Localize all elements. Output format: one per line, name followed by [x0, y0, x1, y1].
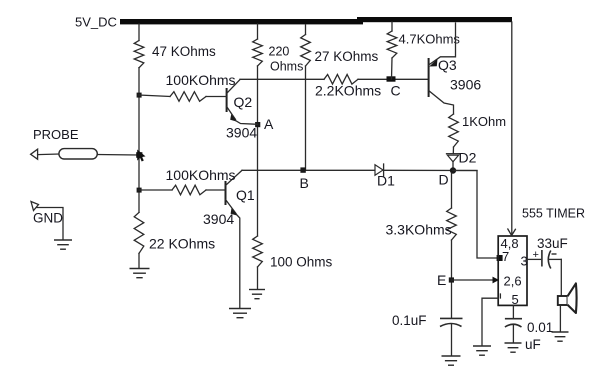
resistor 47 KOhms: [134, 41, 144, 68]
label 555 TIMER: [522, 207, 585, 221]
svg-text:4.7KOhms: 4.7KOhms: [399, 32, 461, 47]
wire gnd arrow to ground: [37, 208, 63, 240]
svg-text:1KOhm: 1KOhm: [462, 114, 506, 129]
pin label 3: [521, 254, 528, 269]
svg-text:Q3: Q3: [438, 57, 457, 73]
ground below Q1 emitter: [229, 309, 251, 318]
wire 33uF to speaker: [560, 259, 562, 296]
ground below 100 Ohms: [249, 290, 265, 299]
label 3906 for Q3: [450, 77, 481, 93]
wire 555 pin 1 to ground: [482, 298, 498, 345]
resistor 1KOhm: [449, 114, 459, 147]
speaker LS1: [558, 283, 577, 313]
label C: [391, 83, 401, 99]
svg-text:Q2: Q2: [234, 94, 253, 110]
svg-text:100KOhms: 100KOhms: [166, 72, 236, 88]
ground 555 pin 1: [473, 346, 491, 355]
wire node E to 555 pin 2,6: [452, 279, 497, 281]
ground below 0.01uF: [505, 343, 522, 352]
capacitor 0.1uF: [440, 318, 463, 355]
arrowhead at 555 pin 2,6: [493, 277, 500, 284]
wire node D down to 3.3KOhms: [451, 173, 453, 208]
label 0.1uF: [392, 313, 427, 328]
resistor 100KOhms Q1 base: [172, 185, 206, 195]
wire 1KOhm to D2: [452, 147, 454, 154]
arrowhead at 555 pin 7: [497, 255, 503, 261]
svg-text:Ohms: Ohms: [270, 60, 303, 74]
resistor 3.3KOhms: [447, 208, 457, 240]
wire left branch vertical from rail: [138, 24, 140, 268]
pin label 2,6: [504, 274, 522, 289]
label A: [264, 116, 274, 132]
resistor 22 KOhms: [134, 212, 144, 253]
wire 3.3KOhms to node E: [451, 240, 453, 318]
resistor 4.7KOhms: [387, 31, 397, 58]
svg-text:27 KOhms: 27 KOhms: [315, 49, 379, 64]
label 33uF: [537, 236, 568, 251]
pin 1 tick: [499, 294, 501, 298]
label PROBE: [33, 127, 79, 142]
svg-text:100KOhms: 100KOhms: [166, 167, 236, 183]
resistor 27 KOhms: [301, 35, 311, 67]
label 4.7KOhms: [399, 32, 461, 47]
wire 27 KOhms branch vertical: [305, 25, 307, 170]
pin label 7: [502, 249, 509, 264]
capacitor 33uF: [533, 249, 562, 269]
resistor 220 Ohms: [253, 39, 263, 66]
label Q3: [438, 57, 457, 73]
svg-text:3: 3: [521, 254, 528, 269]
label 220 Ohms: [269, 45, 304, 74]
wire 555 pin 5 to capacitor: [512, 305, 514, 318]
wire probe arrow to probe body: [38, 153, 59, 156]
power rail 5V_DC bus bar: [120, 17, 512, 24]
pin label 5: [512, 292, 519, 307]
svg-text:47 KOhms: 47 KOhms: [152, 44, 216, 59]
label D1: [377, 173, 395, 189]
wire Q1 base from junction: [139, 189, 226, 191]
svg-text:D1: D1: [377, 173, 395, 189]
label 27 KOhms: [315, 49, 379, 64]
label 3904 for Q1: [203, 211, 234, 227]
svg-text:220: 220: [269, 45, 290, 59]
svg-text:555 TIMER: 555 TIMER: [522, 207, 585, 221]
label D: [439, 172, 449, 188]
wire 555 pin 3 to capacitor 33uF: [527, 258, 541, 260]
ground below speaker: [552, 332, 569, 341]
node B: [300, 167, 305, 172]
svg-text:3904: 3904: [203, 211, 234, 227]
resistor 100KOhms Q2 base: [170, 92, 206, 102]
node D: [450, 167, 456, 173]
wire 4.7KOhms branch vertical: [391, 22, 394, 79]
label Q1: [236, 187, 255, 203]
svg-text:100 Ohms: 100 Ohms: [270, 255, 333, 270]
label 0.01: [527, 320, 553, 335]
label E: [437, 272, 446, 288]
svg-text:5V_DC: 5V_DC: [75, 15, 117, 30]
555 timer U1: [498, 236, 527, 305]
svg-text:A: A: [264, 116, 274, 132]
label uF: [525, 337, 541, 352]
label GND: [33, 211, 63, 226]
label 100 Ohms: [270, 255, 333, 270]
svg-text:0.1uF: 0.1uF: [392, 313, 427, 328]
label 5V_DC: [75, 15, 117, 30]
node E: [449, 277, 454, 282]
diode D2: [447, 154, 460, 170]
svg-text:3906: 3906: [450, 77, 481, 93]
svg-text:uF: uF: [525, 337, 541, 352]
ground GND terminal: [54, 240, 72, 249]
wire Q2 base from junction: [139, 95, 227, 97]
wire node D to 555 pin 7: [453, 171, 498, 259]
capacitor 0.01uF: [505, 319, 522, 343]
gnd terminal arrow: [31, 202, 39, 211]
wire speaker to ground: [559, 305, 561, 332]
cursor artifact at probe junction: [136, 150, 145, 162]
ground below 22 KOhms: [130, 269, 150, 278]
svg-text:D2: D2: [459, 150, 477, 166]
svg-text:2.2KOhms: 2.2KOhms: [315, 83, 381, 99]
wire 220 ohm branch vertical: [257, 24, 259, 289]
svg-text:22 KOhms: 22 KOhms: [149, 236, 215, 252]
label Q2: [234, 94, 253, 110]
wire probe body to left branch: [97, 154, 139, 157]
svg-text:3.3KOhms: 3.3KOhms: [386, 222, 452, 238]
label D2: [459, 150, 477, 166]
node junction to Q2 base resistor: [137, 93, 142, 98]
svg-text:B: B: [300, 175, 309, 191]
transistor Q1: [226, 170, 243, 308]
diode D1: [375, 164, 384, 176]
label 3904 for Q2: [226, 125, 257, 141]
probe body oval: [59, 149, 97, 159]
svg-text:5: 5: [512, 292, 519, 307]
label B: [300, 175, 309, 191]
svg-text:E: E: [437, 272, 446, 288]
svg-text:33uF: 33uF: [537, 236, 568, 251]
svg-text:3904: 3904: [226, 125, 257, 141]
arrowhead into 555 top: [508, 229, 516, 236]
node C: [387, 76, 396, 81]
label 1KOhm: [462, 114, 506, 129]
wire rail to 555 pin 4,8: [511, 22, 513, 235]
resistor 100 Ohms: [253, 236, 263, 267]
label 3.3KOhms: [386, 222, 452, 238]
label 22 KOhms: [149, 236, 215, 252]
svg-text:7: 7: [502, 249, 509, 264]
wire Q2 collector run to Q3 base: [240, 78, 429, 80]
wire node B horizontal run: [242, 169, 477, 171]
svg-text:D: D: [439, 172, 449, 188]
ground below 0.1uF: [442, 356, 461, 365]
probe terminal arrow: [31, 149, 38, 159]
pin label 4,8: [501, 236, 519, 251]
svg-text:Q1: Q1: [236, 187, 255, 203]
transistor Q2: [227, 80, 258, 125]
label 47 KOhms: [152, 44, 216, 59]
node junction to Q1 base resistor: [137, 188, 142, 193]
node A: [255, 122, 260, 127]
svg-text:GND: GND: [33, 211, 63, 226]
transistor Q3: [429, 23, 456, 114]
label 2.2KOhms: [315, 83, 381, 99]
svg-text:PROBE: PROBE: [33, 127, 79, 142]
svg-text:2,6: 2,6: [504, 274, 522, 289]
svg-text:0.01: 0.01: [527, 320, 553, 335]
label 100KOhms lower: [166, 167, 236, 183]
svg-text:C: C: [391, 83, 401, 99]
label 100KOhms upper: [166, 72, 236, 88]
resistor 2.2KOhms: [324, 75, 358, 85]
